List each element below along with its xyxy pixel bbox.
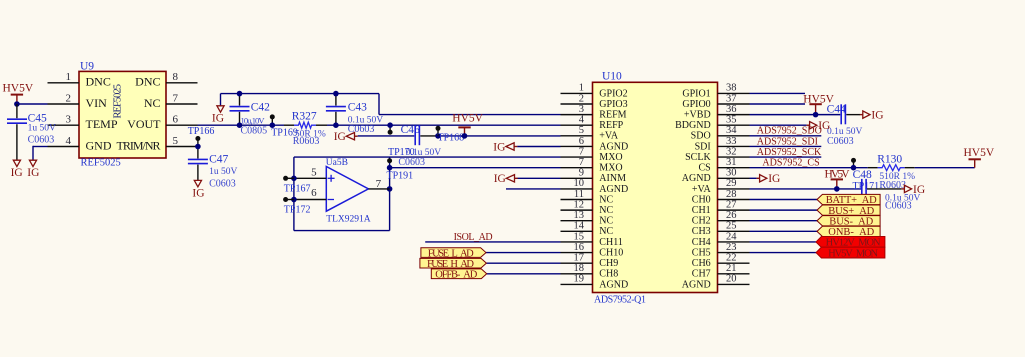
svg-text:HV5V: HV5V (825, 169, 851, 181)
svg-text:REFM: REFM (599, 110, 626, 121)
junction op-amp -in (291, 197, 297, 203)
U10 pin numbers (574, 83, 738, 285)
junction at TRIM/NR (195, 144, 201, 150)
wire AGND pin10 (506, 188, 561, 190)
test point TP166 (195, 136, 200, 147)
op-amp comment TLX9291A (326, 215, 370, 225)
U10 comment ADS7952-Q1 (594, 295, 646, 306)
svg-text:TP172: TP172 (284, 205, 311, 216)
R130 designator (877, 153, 902, 165)
wire SCLK pin32 (750, 156, 822, 158)
U10 pin stubs (561, 93, 750, 284)
svg-text:VIN: VIN (86, 96, 108, 110)
wire op-amp feedback loop (294, 157, 390, 231)
svg-text:31: 31 (726, 157, 737, 168)
wire CH2 to BUS-_AD (750, 220, 818, 222)
svg-text:C47: C47 (209, 154, 228, 166)
C42 footprint C0805 (241, 126, 268, 137)
svg-text:NC: NC (144, 96, 161, 110)
wire MXO row B (pin8) (390, 167, 561, 169)
svg-text:9: 9 (579, 168, 584, 179)
svg-text:U10: U10 (602, 71, 622, 83)
svg-text:OFFB-_AD: OFFB-_AD (435, 269, 477, 280)
svg-text:8: 8 (173, 71, 179, 83)
svg-text:16: 16 (574, 242, 585, 253)
C42 designator (251, 102, 270, 114)
svg-text:IG: IG (871, 110, 883, 122)
wire +VA pin29 (750, 188, 862, 190)
capacitor C46 (415, 125, 438, 145)
svg-text:TLX9291A: TLX9291A (326, 215, 370, 225)
svg-text:DNC: DNC (135, 75, 160, 89)
TP171 label (853, 181, 880, 192)
svg-text:IG: IG (494, 173, 506, 185)
power port HV5V (CS pullup) (964, 147, 995, 168)
junction op-amp +in (291, 176, 297, 182)
svg-text:SDI: SDI (695, 141, 711, 152)
svg-text:CH5: CH5 (692, 247, 711, 258)
svg-text:C43: C43 (348, 102, 367, 114)
svg-text:CH1: CH1 (692, 205, 711, 216)
svg-text:13: 13 (574, 210, 585, 221)
TP168 label (438, 133, 465, 144)
svg-text:AGND: AGND (599, 279, 628, 290)
svg-text:CH0: CH0 (692, 194, 711, 205)
ADC U10 ADS7952-Q1 body (593, 82, 718, 292)
svg-text:38: 38 (726, 83, 737, 94)
svg-text:22: 22 (726, 252, 737, 263)
junction at C45/HV5V (14, 101, 20, 107)
ground IG arrow after C48 (901, 184, 925, 196)
svg-text:29: 29 (726, 178, 737, 189)
svg-text:1u 50V: 1u 50V (28, 123, 56, 133)
svg-text:C0603: C0603 (28, 134, 55, 145)
svg-text:6: 6 (579, 136, 584, 147)
C45 value 1u 50V (28, 123, 56, 133)
svg-text:R130: R130 (877, 153, 902, 165)
svg-text:17: 17 (574, 252, 585, 263)
svg-text:5: 5 (311, 167, 317, 179)
svg-text:IG: IG (334, 131, 346, 143)
svg-text:34: 34 (726, 125, 737, 136)
svg-text:23: 23 (726, 242, 737, 253)
svg-text:GND: GND (86, 138, 112, 152)
svg-text:AGND: AGND (682, 279, 711, 290)
svg-text:1: 1 (579, 83, 584, 94)
resistor R130 (868, 165, 915, 171)
C44 designator (827, 103, 846, 115)
capacitor C47 (188, 159, 208, 180)
wire CH3 to ONB-_AD (750, 230, 818, 232)
svg-text:14: 14 (574, 221, 585, 232)
svg-text:BDGND: BDGND (675, 120, 711, 131)
capacitor C43 (326, 94, 346, 124)
C46 designator (401, 124, 420, 136)
resistor R327 (284, 122, 327, 128)
C48 designator (853, 169, 872, 181)
C44 footprint C0603 (827, 136, 854, 147)
svg-text:26: 26 (726, 210, 737, 221)
svg-text:5: 5 (173, 135, 179, 147)
svg-text:TP191: TP191 (387, 170, 414, 181)
svg-text:10u,10V: 10u,10V (241, 116, 266, 126)
svg-text:C0603: C0603 (209, 179, 236, 190)
svg-text:27: 27 (726, 199, 737, 210)
svg-text:C0603: C0603 (398, 157, 425, 168)
svg-text:36: 36 (726, 104, 737, 115)
ground IG arrow at AGND pin6 (493, 141, 517, 153)
svg-text:NC: NC (599, 194, 613, 205)
svg-text:37: 37 (726, 93, 737, 104)
svg-text:24: 24 (726, 231, 737, 242)
port BATT+_AD (817, 194, 880, 206)
ground IG arrow at AINM (494, 173, 518, 185)
svg-text:TP169: TP169 (271, 127, 298, 138)
svg-text:CH10: CH10 (599, 247, 623, 258)
svg-text:TP168: TP168 (438, 133, 465, 144)
svg-text:CH7: CH7 (692, 269, 711, 280)
C42 value 10u,10V (241, 116, 266, 126)
svg-text:2: 2 (579, 93, 584, 104)
TP167 label (284, 184, 311, 195)
wire CH10 to FUSE_L_AD (486, 252, 561, 254)
svg-text:ISOL_AD: ISOL_AD (454, 232, 493, 243)
svg-text:CH6: CH6 (692, 258, 711, 269)
svg-text:CS: CS (698, 163, 710, 174)
svg-text:AGND: AGND (599, 184, 628, 195)
svg-text:35: 35 (726, 115, 737, 126)
svg-text:32: 32 (726, 146, 737, 157)
svg-text:5: 5 (579, 125, 584, 136)
ground IG arrow after C44 (860, 110, 884, 122)
svg-text:HV5V: HV5V (452, 112, 483, 124)
junction TP170 (387, 122, 393, 128)
svg-text:GPIO3: GPIO3 (599, 99, 627, 110)
wire GND pin4 to IG (33, 146, 48, 160)
U9 designator (80, 60, 94, 72)
wire AINM pin9 (518, 177, 561, 179)
wire GPIO0 pin37 (750, 103, 806, 105)
svg-text:25: 25 (726, 221, 737, 232)
svg-text:CH11: CH11 (599, 237, 623, 248)
C43 footprint C0603 (348, 124, 375, 135)
wire AGND pin30 (750, 177, 757, 179)
svg-text:C44: C44 (827, 103, 846, 115)
op-amp pin 5 stub (294, 177, 326, 179)
port HV5V_MON (816, 247, 885, 259)
svg-text:VOUT: VOUT (127, 117, 161, 131)
test point TP167 (283, 176, 294, 181)
C45 footprint C0603 (28, 134, 55, 145)
C48 value 0.1u 50V (885, 193, 921, 203)
U9 comment REF5025 (81, 158, 121, 169)
svg-text:CH3: CH3 (692, 226, 711, 237)
C44 value 0.1u 50V (827, 127, 863, 137)
ground IG arrow at BDGND (807, 120, 831, 132)
svg-text:DNC: DNC (86, 75, 111, 89)
svg-text:AGND: AGND (599, 141, 628, 152)
wire AGND pin6 (517, 146, 560, 148)
svg-text:HV5V: HV5V (964, 147, 995, 159)
svg-text:NC: NC (599, 226, 613, 237)
wire MXO row A (pin7) (294, 156, 561, 158)
port BUS+_AD (817, 205, 880, 217)
C47 designator (209, 154, 228, 166)
svg-text:GPIO0: GPIO0 (682, 99, 710, 110)
R130 footprint R0603 (879, 180, 906, 191)
svg-text:7: 7 (173, 92, 179, 104)
svg-text:GPIO2: GPIO2 (599, 88, 627, 99)
op-amp pin 6 stub (294, 199, 326, 201)
svg-text:IG: IG (27, 167, 39, 179)
svg-text:ADS7952_SCK: ADS7952_SCK (757, 147, 822, 158)
svg-text:ADS7952_CS: ADS7952_CS (762, 158, 819, 169)
port OFFB-_AD (431, 269, 486, 281)
R327 footprint R0603 (293, 136, 320, 147)
TP172 label (284, 205, 311, 216)
svg-text:11: 11 (574, 189, 584, 200)
svg-text:FUSE_L_AD: FUSE_L_AD (428, 248, 474, 259)
svg-text:C46: C46 (401, 124, 420, 136)
TP166 label (188, 126, 215, 137)
svg-text:IG: IG (192, 188, 204, 200)
wire CH5 to HV5V_MON (750, 252, 817, 254)
svg-text:12: 12 (574, 199, 585, 210)
svg-text:R327: R327 (292, 110, 317, 122)
svg-text:C0603: C0603 (827, 136, 854, 147)
svg-text:6: 6 (173, 114, 179, 126)
svg-text:TEMP: TEMP (86, 117, 118, 131)
svg-text:HV5V_MON: HV5V_MON (828, 248, 878, 259)
capacitor C45 (7, 104, 27, 160)
C46 footprint C0603 (398, 157, 425, 168)
svg-text:4: 4 (66, 135, 72, 147)
port ONB-_AD (817, 226, 880, 238)
svg-text:HV5V: HV5V (3, 83, 34, 95)
net label ADS7952_SDI (757, 136, 818, 147)
svg-text:REF5025: REF5025 (81, 158, 121, 169)
svg-text:33: 33 (726, 136, 737, 147)
wire IG to C46 (358, 135, 415, 137)
junction HV5V/+VA pin29 (834, 186, 840, 192)
svg-text:+VA: +VA (692, 184, 712, 195)
svg-text:GPIO1: GPIO1 (682, 88, 710, 99)
svg-text:C0603: C0603 (885, 200, 912, 211)
junction C46/+VA (435, 133, 441, 139)
power port HV5V (VIN of U9) (3, 83, 34, 104)
TP169 label (271, 127, 298, 138)
svg-text:TRIM/NR: TRIM/NR (117, 138, 161, 152)
C47 footprint C0603 (209, 179, 236, 190)
U9 pin names (86, 75, 162, 153)
wire CH0 to BATT+_AD (750, 199, 818, 201)
ground IG arrow feeding C46 (334, 131, 358, 143)
ground IG under C47 (192, 180, 204, 199)
test point on CS (851, 158, 856, 168)
svg-text:U9: U9 (80, 60, 94, 72)
svg-text:3: 3 (579, 104, 584, 115)
capacitor C48 (862, 179, 902, 199)
svg-text:18: 18 (574, 263, 585, 274)
port FUSE_H_AD (420, 258, 487, 270)
svg-text:AGND: AGND (682, 173, 711, 184)
wire SDI pin33 (750, 145, 822, 147)
svg-text:CH9: CH9 (599, 258, 618, 269)
svg-text:19: 19 (574, 274, 585, 285)
R327 designator (292, 110, 317, 122)
ground IG arrow at AGND pin30 (757, 173, 781, 185)
svg-text:CH4: CH4 (692, 237, 711, 248)
power port HV5V (+VA pin29) (825, 169, 851, 189)
wire +VA row (438, 135, 561, 137)
svg-text:+VBD: +VBD (684, 110, 711, 121)
TP170 label (388, 147, 415, 158)
svg-text:REFP: REFP (599, 120, 623, 131)
wire CH8 to OFFB-_AD (487, 273, 561, 275)
junction op-amp output (387, 186, 393, 192)
R130 value 510R 1% (879, 172, 915, 182)
svg-text:3: 3 (66, 114, 72, 126)
junction C43 bottom (333, 122, 339, 128)
svg-text:28: 28 (726, 189, 737, 200)
C48 footprint C0603 (885, 200, 912, 211)
test point TP191 (387, 158, 392, 163)
net label ADS7952_CS (762, 158, 819, 169)
ground IG at U9 GND (27, 160, 39, 179)
port FUSE_L_AD (421, 248, 486, 260)
net label ADS7952_SDO (757, 126, 822, 137)
C43 value 0.1u 50V (348, 116, 384, 126)
wire VOUT to R327 (198, 124, 285, 126)
svg-text:MXO: MXO (599, 152, 622, 163)
svg-text:FUSE_H_AD: FUSE_H_AD (427, 259, 474, 270)
svg-text:7: 7 (579, 146, 584, 157)
svg-text:NC: NC (599, 205, 613, 216)
wire SDO pin34 (750, 135, 822, 137)
svg-text:SCLK: SCLK (685, 152, 711, 163)
R327 value 50R 1% (295, 130, 326, 140)
svg-text:MXO: MXO (599, 163, 622, 174)
svg-text:4: 4 (579, 115, 585, 126)
op-amp Ua5B TLX9291A (326, 167, 368, 212)
op-amp pin 7 output stub (368, 188, 389, 190)
wire R130 to HV5V (915, 167, 975, 169)
wire CH9 to FUSE_H_AD (486, 262, 560, 264)
net label ADS7952_SCK (757, 147, 822, 158)
op-amp designator Ua5B (326, 158, 348, 168)
svg-text:20: 20 (726, 274, 737, 285)
wire CH4 to HV12V_MON (750, 241, 817, 243)
wire BDGND pin35 (750, 124, 807, 126)
capacitor C44 (841, 104, 860, 124)
junction C42 bottom (237, 122, 243, 128)
svg-text:ADS7952_SDI: ADS7952_SDI (757, 136, 818, 147)
wire TRIM/NR to C47 (197, 147, 199, 159)
svg-text:+VA: +VA (599, 131, 619, 142)
svg-text:IG: IG (493, 141, 505, 153)
svg-text:C42: C42 (251, 102, 270, 114)
wire CH1 to BUS+_AD (750, 209, 818, 211)
svg-text:IG: IG (768, 173, 780, 185)
junction MXO-B (387, 165, 393, 171)
svg-text:CH2: CH2 (692, 216, 711, 227)
C47 value 1u 50V (209, 167, 237, 177)
ground IG at rail left end (212, 106, 224, 125)
junction HV5V/+VBD (813, 112, 819, 118)
svg-text:6: 6 (311, 187, 317, 199)
svg-text:NC: NC (599, 216, 613, 227)
U9 pin numbers (66, 71, 179, 147)
port HV12V_MON (816, 237, 885, 249)
TP191 label (387, 170, 414, 181)
svg-text:7: 7 (579, 157, 584, 168)
U10 designator (602, 71, 622, 83)
port BUS-_AD (817, 216, 880, 228)
test point TP170 (388, 125, 393, 135)
junction C43 top (333, 91, 339, 97)
junction C42 top (237, 91, 243, 97)
junction CS testpoint (851, 165, 857, 171)
C45 designator (28, 112, 47, 124)
C43 designator (348, 102, 367, 114)
wire HV5V to VIN (17, 103, 48, 105)
svg-text:ADS7952_SDO: ADS7952_SDO (757, 126, 822, 137)
svg-text:15: 15 (574, 231, 585, 242)
svg-text:REF5025: REF5025 (113, 84, 124, 119)
wire CS pin31 (750, 167, 868, 169)
junction HV5V/+VA (462, 133, 468, 139)
net label ISOL_AD (454, 232, 493, 243)
U10 pin names (599, 88, 711, 290)
svg-text:TP167: TP167 (284, 184, 311, 195)
svg-text:2: 2 (66, 92, 72, 104)
svg-text:ADS7952-Q1: ADS7952-Q1 (594, 295, 646, 306)
U9 pin stubs 1-8 (48, 83, 198, 147)
svg-text:1u 50V: 1u 50V (209, 167, 237, 177)
op-amp pin numbers (311, 167, 382, 199)
wire GPIO1 pin38 (750, 92, 806, 94)
svg-text:IG: IG (11, 167, 23, 179)
wire R327 to REFP pin4 (327, 124, 561, 126)
svg-text:AINM: AINM (599, 173, 626, 184)
svg-text:SDO: SDO (691, 131, 711, 142)
capacitor C42 (230, 94, 250, 124)
svg-text:1: 1 (66, 71, 72, 83)
svg-text:TP166: TP166 (188, 126, 215, 137)
U9 internal part-number text (vertical) (113, 84, 124, 119)
wire ground rail REFM (221, 94, 561, 115)
op IC U9 REF5025 body (79, 71, 166, 158)
junction TP169 (270, 122, 276, 128)
svg-text:21: 21 (726, 263, 737, 274)
svg-text:7: 7 (376, 178, 382, 190)
test point TP169 (270, 114, 275, 125)
svg-text:CH8: CH8 (599, 269, 618, 280)
svg-text:IG: IG (212, 113, 224, 125)
svg-text:Ua5B: Ua5B (326, 158, 348, 168)
power port HV5V (+VBD) (803, 93, 834, 114)
svg-text:C0805: C0805 (241, 126, 268, 137)
test point TP168 (436, 126, 441, 136)
C46 value 0.1u 50V (406, 148, 442, 158)
wire CH11 ISOL_AD (425, 241, 560, 243)
svg-text:10: 10 (574, 178, 585, 189)
power port HV5V (+VA row) (452, 112, 483, 135)
ground IG under C45 (11, 160, 23, 179)
wire +VBD pin36 (750, 114, 841, 116)
test point TP172 (283, 197, 294, 202)
svg-text:30: 30 (726, 168, 737, 179)
